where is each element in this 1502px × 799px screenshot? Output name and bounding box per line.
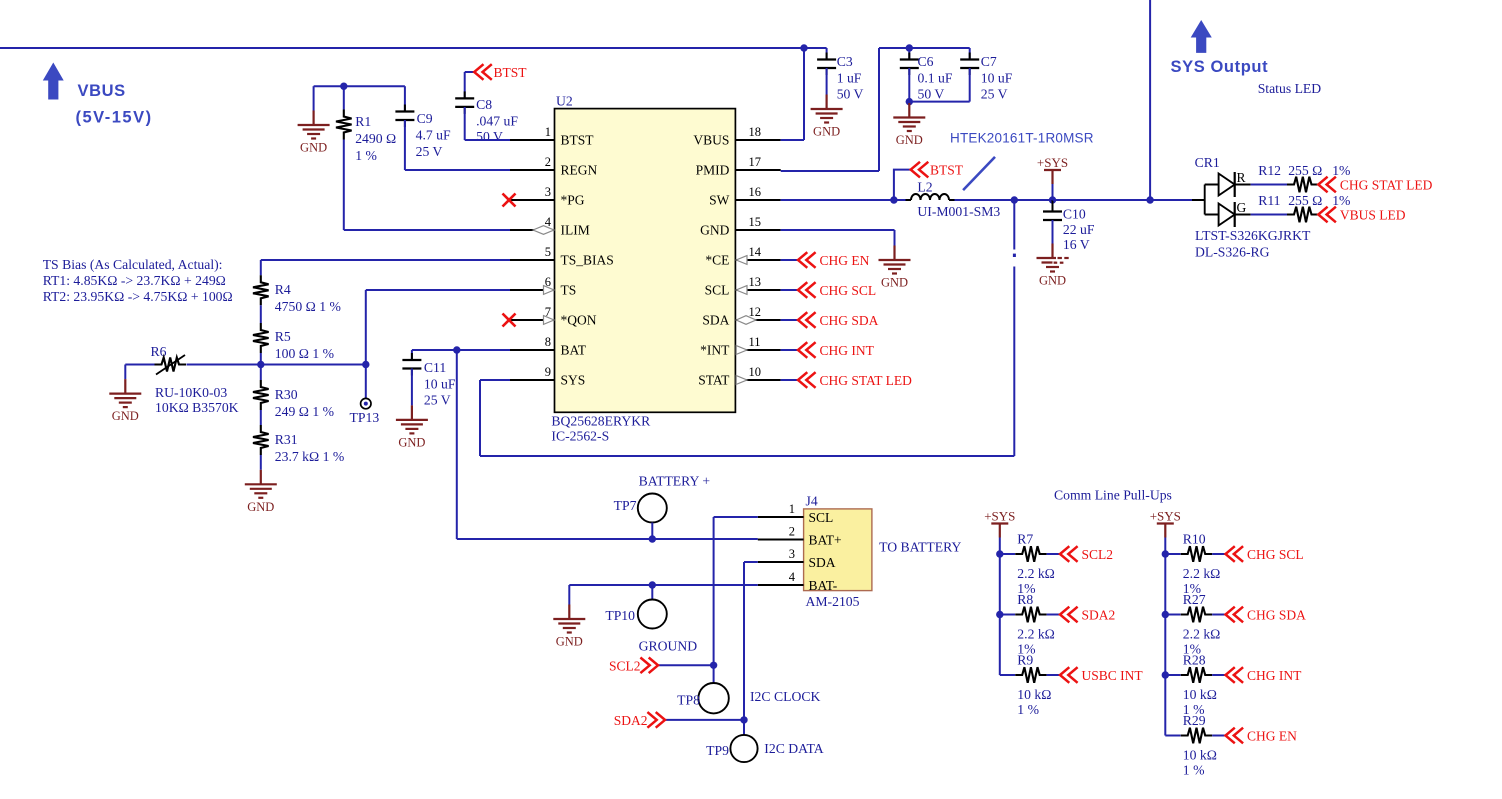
U2 pin 8 BAT stub: [510, 349, 555, 351]
wire rail to R27: [1165, 614, 1180, 616]
svg-text:*QON: *QON: [561, 313, 597, 328]
wire SCL column: [713, 517, 715, 683]
svg-text:16: 16: [749, 185, 762, 199]
svg-text:I2C CLOCK: I2C CLOCK: [750, 689, 820, 704]
wire pin17 PMID: [781, 170, 879, 172]
svg-text:CHG EN: CHG EN: [1247, 729, 1297, 744]
U2 pin 4 ILIM stub: [510, 229, 555, 231]
wire +SYS rail right: [1164, 538, 1166, 736]
wire pin18 to VBUS rail: [781, 139, 804, 141]
svg-text:50 V: 50 V: [837, 87, 864, 102]
svg-text:GND: GND: [700, 223, 729, 238]
ground GND at C3: [811, 95, 843, 123]
wire rail to R10: [1165, 553, 1180, 555]
svg-text:RU-10K0-03: RU-10K0-03: [155, 385, 227, 400]
resistor R6 (thermistor): [155, 358, 187, 372]
svg-text:CHG STAT LED: CHG STAT LED: [1340, 178, 1433, 193]
U2 pin 14 *CE direction glyph: [736, 256, 747, 265]
svg-text:C3: C3: [837, 54, 853, 69]
svg-text:18: 18: [749, 125, 762, 139]
decorative watermark gap: [1011, 250, 1069, 267]
svg-text:25 V: 25 V: [981, 87, 1008, 102]
svg-text:10 uF: 10 uF: [981, 71, 1013, 86]
wire BTST branch: [894, 170, 911, 200]
wire R6 left to GND: [124, 365, 126, 380]
svg-text:11: 11: [749, 335, 761, 349]
svg-text:SCL2: SCL2: [1082, 547, 1114, 562]
svg-text:255 Ω: 255 Ω: [1288, 163, 1322, 178]
svg-text:1: 1: [545, 125, 551, 139]
svg-text:4.7 uF: 4.7 uF: [416, 128, 451, 143]
svg-text:5: 5: [545, 245, 551, 259]
svg-text:1%: 1%: [1332, 193, 1350, 208]
wire ILIM net: [344, 229, 510, 231]
wire C6 to C7 bottom: [909, 101, 969, 103]
svg-text:2.2 kΩ: 2.2 kΩ: [1183, 627, 1221, 642]
U2 pin 6 TS direction glyph: [544, 286, 555, 295]
wire CHG STAT LED net: [781, 379, 798, 381]
svg-text:R8: R8: [1017, 592, 1033, 607]
U2 pin 11 *INT stub: [735, 349, 780, 351]
U2 pin 16 SW stub: [735, 199, 780, 201]
U2 pin 7 *QON stub: [510, 319, 555, 321]
node C6/C7 ground tie: [906, 98, 913, 105]
ground GND at C11: [396, 405, 428, 433]
svg-text:J4: J4: [806, 494, 818, 509]
node rail R10: [1162, 550, 1169, 557]
U2 pin 14 *CE stub: [735, 259, 780, 261]
wire R27 to flag: [1212, 614, 1225, 616]
svg-text:*INT: *INT: [700, 343, 730, 358]
inductor L2: [906, 199, 912, 201]
U2 pin 12 SDA stub: [735, 319, 780, 321]
svg-text:L2: L2: [917, 180, 932, 195]
svg-text:10 kΩ: 10 kΩ: [1183, 687, 1217, 702]
U2 pin 1 BTST stub: [510, 139, 555, 141]
node PMID rail / C6: [906, 44, 913, 51]
svg-text:TP13: TP13: [350, 410, 380, 425]
net flag CHG INT: [1226, 667, 1244, 683]
svg-text:2.2 kΩ: 2.2 kΩ: [1017, 627, 1055, 642]
net flag CHG SDA: [1226, 607, 1244, 623]
resistor R12: [1287, 177, 1319, 193]
wire SW to L2: [894, 199, 906, 201]
wire J4 SDA: [744, 561, 758, 563]
node rail R7: [996, 550, 1003, 557]
svg-text:13: 13: [749, 275, 762, 289]
U2 pin 5 TS_BIAS stub: [510, 259, 555, 261]
wire C10 to GND: [1052, 220, 1054, 244]
svg-text:VBUS: VBUS: [78, 82, 126, 100]
wire TS column up: [365, 290, 367, 365]
svg-text:+SYS: +SYS: [1037, 155, 1068, 170]
net flag SDA2: [647, 712, 665, 728]
svg-text:ILIM: ILIM: [561, 223, 590, 238]
J4 pin 3 stub: [758, 561, 804, 563]
svg-text:TP7: TP7: [614, 498, 637, 513]
U2 pin 2 REGN stub: [510, 169, 555, 171]
svg-text:TS Bias (As Calculated, Actual: TS Bias (As Calculated, Actual):: [43, 257, 223, 273]
wire node to R30: [260, 365, 262, 381]
node rail R8: [996, 611, 1003, 618]
wire rail to R7: [1000, 553, 1015, 555]
wire TS_BIAS net: [261, 259, 510, 261]
svg-text:G: G: [1237, 200, 1247, 215]
svg-text:249 Ω 1 %: 249 Ω 1 %: [275, 404, 334, 419]
U2 pin 10 STAT stub: [735, 379, 780, 381]
resistor R1: [336, 110, 352, 140]
wire R31 to GND: [260, 455, 262, 470]
svg-text:BAT+: BAT+: [809, 533, 842, 548]
svg-text:255 Ω: 255 Ω: [1288, 193, 1322, 208]
resistor R28: [1181, 667, 1213, 683]
wire CHG SDA net: [781, 319, 798, 321]
svg-text:4: 4: [789, 570, 796, 584]
wire R30 to R31: [260, 410, 262, 425]
node rail R27: [1162, 611, 1169, 618]
power +SYS right: [1157, 524, 1174, 538]
svg-text:R27: R27: [1183, 592, 1206, 607]
wire LED R11 row: [1235, 214, 1251, 216]
svg-text:2.2 kΩ: 2.2 kΩ: [1017, 566, 1055, 581]
svg-text:SDA: SDA: [809, 555, 836, 570]
wire rail to R8: [1000, 614, 1015, 616]
wire to GND left of R1: [313, 86, 315, 110]
svg-text:REGN: REGN: [561, 163, 598, 178]
svg-text:SCL: SCL: [809, 510, 834, 525]
wire CHG INT net: [781, 349, 798, 351]
net flag VBUS LED: [1318, 207, 1336, 223]
resistor R7: [1015, 546, 1046, 562]
U2 pin 13 SCL stub: [735, 289, 780, 291]
wire R28 to flag: [1212, 674, 1225, 676]
svg-text:GND: GND: [300, 141, 327, 155]
svg-text:50 V: 50 V: [476, 129, 503, 144]
resistor R30: [253, 380, 269, 410]
node SYS output: [1146, 196, 1153, 203]
svg-text:I2C DATA: I2C DATA: [764, 741, 823, 756]
wire SYS node run: [1014, 199, 1052, 201]
svg-text:RT1: 4.85KΩ -> 23.7KΩ + 249Ω: RT1: 4.85KΩ -> 23.7KΩ + 249Ω: [43, 273, 226, 288]
svg-text:R10: R10: [1183, 532, 1206, 547]
svg-text:BTST: BTST: [494, 65, 528, 80]
resistor R11: [1287, 207, 1319, 223]
wire R4 to R5: [260, 305, 262, 323]
svg-text:UI-M001-SM3: UI-M001-SM3: [917, 204, 1000, 219]
ground GND at pin 15: [879, 246, 911, 274]
svg-text:1 %: 1 %: [355, 148, 377, 163]
wire BAT to J4 pin2: [652, 538, 758, 540]
wire C6 bottom: [908, 68, 910, 102]
svg-text:GND: GND: [112, 409, 139, 423]
svg-text:TP9: TP9: [706, 743, 729, 758]
svg-text:DL-S326-RG: DL-S326-RG: [1195, 245, 1270, 260]
wire rail to R9: [1000, 674, 1015, 676]
svg-text:SDA: SDA: [702, 313, 729, 328]
wire C8 top lead: [464, 72, 466, 98]
svg-text:AM-2105: AM-2105: [806, 594, 860, 609]
svg-text:10KΩ B3570K: 10KΩ B3570K: [155, 400, 239, 415]
svg-text:1 uF: 1 uF: [837, 71, 862, 86]
svg-text:23.7 kΩ 1 %: 23.7 kΩ 1 %: [275, 449, 344, 464]
svg-text:BTST: BTST: [930, 163, 964, 178]
node R1/C9 gnd tie: [340, 83, 347, 90]
net flag CHG STAT LED: [798, 372, 816, 388]
wire local gnd net R1/C9: [314, 85, 405, 87]
svg-text:R29: R29: [1183, 713, 1206, 728]
svg-text:10 kΩ: 10 kΩ: [1183, 748, 1217, 763]
net flag BTST (SW): [911, 162, 929, 178]
VBUS input arrow: [43, 63, 64, 100]
capacitor C11: [402, 353, 421, 376]
svg-text:SYS: SYS: [561, 373, 586, 388]
wire VBUS top rail: [0, 47, 827, 49]
ground GND at C6: [893, 103, 925, 131]
svg-text:GROUND: GROUND: [639, 639, 698, 654]
LED CR1 green element: [1219, 204, 1235, 226]
svg-text:GND: GND: [813, 125, 840, 139]
capacitor C10 top lead: [1052, 200, 1054, 212]
svg-text:0.1 uF: 0.1 uF: [918, 71, 953, 86]
svg-text:GND: GND: [881, 276, 908, 290]
svg-text:Status LED: Status LED: [1258, 81, 1322, 96]
net flag SCL2: [1060, 546, 1078, 562]
ground GND at C10: [1037, 244, 1069, 272]
svg-text:HTEK20161T-1R0MSR: HTEK20161T-1R0MSR: [950, 131, 1094, 146]
wire R8 to flag: [1047, 614, 1060, 616]
node TP7/BAT: [649, 535, 656, 542]
wire R1 to ILIM: [343, 140, 345, 231]
svg-text:CHG INT: CHG INT: [1247, 668, 1302, 683]
wire SYS from pin 9: [480, 379, 510, 381]
svg-text:TO BATTERY: TO BATTERY: [879, 540, 961, 555]
svg-text:GND: GND: [896, 133, 923, 147]
wire BTST pin net: [465, 139, 510, 141]
wire J4 BAT- net: [569, 584, 758, 586]
net flag CHG EN: [1226, 728, 1244, 744]
svg-text:CHG SCL: CHG SCL: [820, 283, 877, 298]
svg-text:22 uF: 22 uF: [1063, 222, 1095, 237]
net flag CHG INT: [798, 342, 816, 358]
wire C9 to REGN: [404, 120, 406, 170]
U2 pin 13 SCL direction glyph: [736, 286, 747, 295]
svg-text:C7: C7: [981, 54, 997, 69]
svg-text:SW: SW: [709, 193, 730, 208]
wire BAT- to GND: [568, 585, 570, 605]
U2 pin 17 PMID stub: [735, 169, 780, 171]
wire R7 to flag: [1047, 553, 1060, 555]
svg-text:GND: GND: [1039, 274, 1066, 288]
wire SYS riser: [1013, 200, 1015, 456]
wire C6 gnd stub: [908, 102, 910, 103]
U2 pin 10 STAT direction glyph: [736, 376, 747, 385]
svg-text:BAT-: BAT-: [809, 578, 838, 593]
wire R1 top lead: [343, 86, 345, 109]
svg-text:+SYS: +SYS: [1150, 509, 1181, 524]
svg-text:BATTERY +: BATTERY +: [639, 474, 711, 489]
svg-text:SYS Output: SYS Output: [1171, 58, 1269, 76]
svg-text:CHG SDA: CHG SDA: [820, 313, 879, 328]
wire TS net: [366, 289, 510, 291]
svg-text:C8: C8: [476, 97, 492, 112]
net flag CHG SCL: [1226, 546, 1244, 562]
wire +SYS rail left: [999, 538, 1001, 676]
ground GND at R6: [109, 379, 141, 407]
wire BAT net: [412, 349, 510, 351]
svg-text:R5: R5: [275, 329, 291, 344]
net flag CHG SCL: [798, 282, 816, 298]
svg-text:BTST: BTST: [561, 133, 595, 148]
resistor R31: [253, 425, 269, 455]
resistor R10: [1181, 546, 1213, 562]
svg-text:14: 14: [749, 245, 762, 259]
svg-text:BAT: BAT: [561, 343, 587, 358]
wire SYS bottom run: [480, 455, 1014, 457]
wire PMID rail: [879, 47, 970, 49]
wire R29 to flag: [1212, 735, 1225, 737]
svg-text:R7: R7: [1017, 532, 1033, 547]
svg-text:R12: R12: [1258, 163, 1281, 178]
wire SDA2 net: [665, 719, 744, 721]
node SYS riser: [1011, 196, 1018, 203]
wire TP10 stub: [651, 585, 653, 600]
wire rail to R29: [1165, 735, 1180, 737]
svg-text:R1: R1: [355, 114, 371, 129]
J4 pin 1 stub: [758, 516, 804, 518]
resistor R4: [253, 275, 269, 305]
U2 pin 11 *INT direction glyph: [736, 346, 747, 355]
wire rail to R28: [1165, 674, 1180, 676]
wire to C11: [411, 350, 413, 360]
svg-text:1 %: 1 %: [1017, 702, 1039, 717]
node rail R28: [1162, 671, 1169, 678]
wire SYS to output column: [1053, 199, 1151, 201]
net flag SCL2: [640, 658, 658, 674]
svg-text:4750 Ω 1 %: 4750 Ω 1 %: [275, 299, 341, 314]
wire C7 bottom: [969, 68, 971, 102]
svg-text:25 V: 25 V: [416, 144, 443, 159]
wire SYS to LED: [1150, 199, 1192, 201]
svg-text:R11: R11: [1258, 193, 1280, 208]
svg-text:LTST-S326KGJRKT: LTST-S326KGJRKT: [1195, 228, 1311, 243]
test point TP9: [730, 735, 757, 762]
node SCL2/TP8: [710, 662, 717, 669]
U2 pin 18 VBUS stub: [735, 139, 780, 141]
svg-text:17: 17: [749, 155, 762, 169]
node SYS / C10: [1049, 196, 1056, 203]
power +SYS left: [991, 524, 1008, 538]
svg-text:2.2 kΩ: 2.2 kΩ: [1183, 566, 1221, 581]
svg-text:PMID: PMID: [696, 163, 730, 178]
power +SYS main: [1044, 170, 1061, 184]
wire CHG EN net: [781, 259, 798, 261]
wire GND to R6: [125, 364, 154, 366]
resistor R5: [253, 323, 269, 353]
svg-text:SCL2: SCL2: [609, 658, 641, 673]
wire C8 to BTST pin: [464, 107, 466, 140]
wire node to TP13 column: [261, 364, 366, 366]
svg-text:R9: R9: [1017, 653, 1033, 668]
wire C3 to GND: [826, 68, 828, 95]
svg-text:CHG SDA: CHG SDA: [1247, 608, 1306, 623]
node SW / BTST branch: [890, 196, 897, 203]
J4 pin 4 stub: [758, 584, 804, 586]
U2 pin 9 SYS stub: [510, 379, 555, 381]
wire R10 to flag: [1212, 553, 1225, 555]
svg-text:10 uF: 10 uF: [424, 377, 456, 392]
wire REGN net: [405, 169, 510, 171]
wire BAT column down: [456, 350, 458, 539]
wire +SYS stub: [1052, 184, 1054, 200]
wire C9 top lead: [404, 86, 406, 111]
resistor R27: [1181, 607, 1213, 623]
U2 pin 4 ILIM direction glyph: [533, 226, 554, 235]
test point TP10: [638, 600, 667, 629]
svg-text:*PG: *PG: [561, 193, 585, 208]
wire GND net down: [894, 230, 896, 246]
svg-text:VBUS: VBUS: [693, 133, 729, 148]
svg-text:+SYS: +SYS: [984, 509, 1015, 524]
node TS divider: [257, 361, 264, 368]
svg-text:12: 12: [749, 305, 762, 319]
wire C11 to GND: [411, 369, 413, 406]
svg-text:16 V: 16 V: [1063, 237, 1090, 252]
SYS Output arrow: [1191, 20, 1212, 53]
svg-text:CHG INT: CHG INT: [820, 343, 875, 358]
IC U2 BQ25628ERYKR body: [555, 109, 736, 413]
svg-text:BQ25628ERYKR: BQ25628ERYKR: [551, 414, 651, 429]
wire SW net: [781, 199, 894, 201]
U2 pin 6 TS stub: [510, 289, 555, 291]
wire R6 to node: [187, 364, 261, 366]
net flag USBC INT: [1060, 667, 1078, 683]
LED CR1 red element: [1219, 174, 1235, 196]
svg-text:R31: R31: [275, 432, 298, 447]
svg-text:10 kΩ: 10 kΩ: [1017, 687, 1051, 702]
U2 pin 15 GND stub: [735, 229, 780, 231]
svg-text:TP8: TP8: [677, 693, 700, 708]
svg-text:CHG SCL: CHG SCL: [1247, 547, 1304, 562]
svg-text:8: 8: [545, 335, 551, 349]
svg-text:RT2: 23.95KΩ -> 4.75KΩ + 100Ω: RT2: 23.95KΩ -> 4.75KΩ + 100Ω: [43, 289, 233, 304]
svg-text:25 V: 25 V: [424, 393, 451, 408]
svg-text:15: 15: [749, 215, 762, 229]
svg-text:GND: GND: [398, 435, 425, 449]
svg-text:100 Ω 1 %: 100 Ω 1 %: [275, 346, 334, 361]
svg-text:3: 3: [789, 547, 795, 561]
svg-text:R30: R30: [275, 387, 298, 402]
svg-text:R28: R28: [1183, 653, 1206, 668]
svg-text:USBC INT: USBC INT: [1082, 668, 1144, 683]
wire SCL2 net: [658, 664, 714, 666]
resistor R8: [1015, 607, 1046, 623]
capacitor C10: [1043, 205, 1062, 228]
svg-text:GND: GND: [247, 500, 274, 514]
svg-text:C6: C6: [918, 54, 934, 69]
capacitor C8: [455, 91, 474, 114]
wire rail to C6: [908, 48, 910, 60]
svg-text:1: 1: [789, 502, 795, 516]
wire J4 SCL: [714, 516, 758, 518]
svg-text:3: 3: [545, 185, 551, 199]
svg-text:2: 2: [545, 155, 551, 169]
no-connect X on pin 3 *PG: [503, 194, 516, 207]
resistor R29: [1181, 728, 1213, 744]
wire L2 to SYS node: [955, 199, 1015, 201]
ground GND below R31: [245, 470, 277, 498]
wire TP7 stub: [651, 523, 653, 540]
node TS/TP13: [362, 361, 369, 368]
